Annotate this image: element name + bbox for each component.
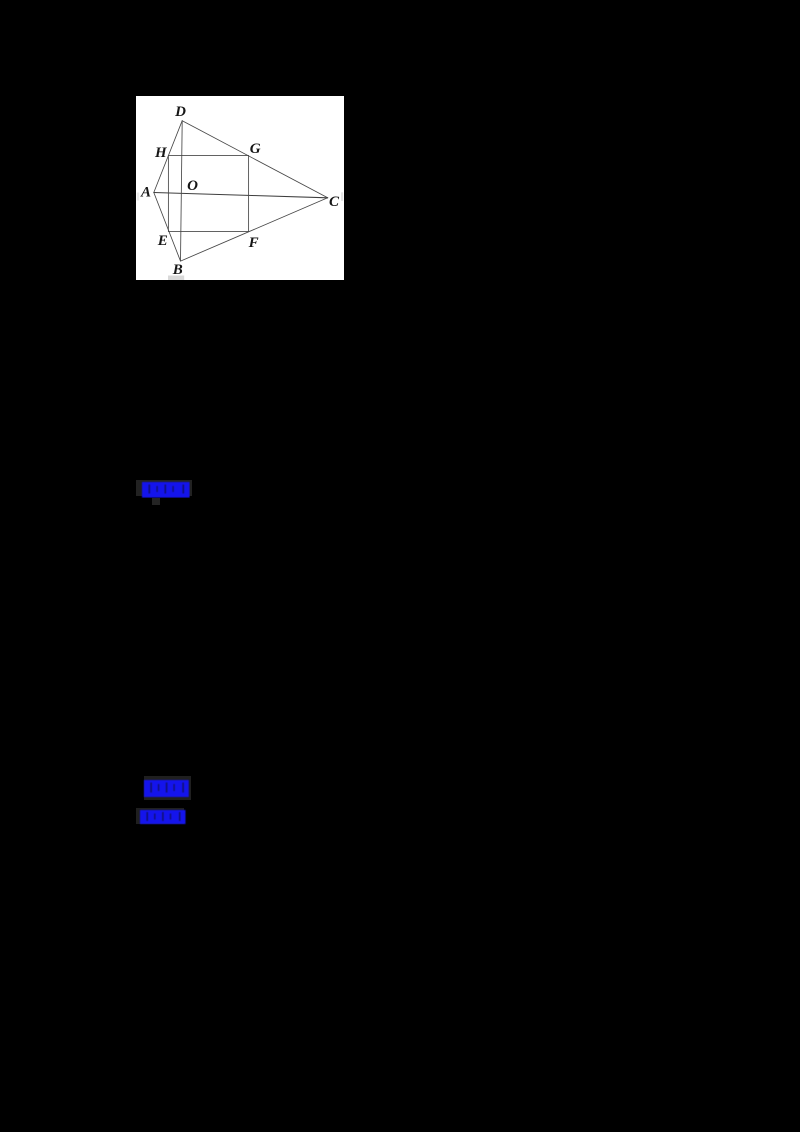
descender blob under block1 <box>152 498 160 505</box>
gray smudge under B <box>168 275 184 280</box>
side DC <box>182 120 327 197</box>
diagonal AC <box>154 192 328 197</box>
rectangle HGFE <box>168 155 248 231</box>
svg-text:C: C <box>329 194 340 210</box>
faint streak right edge near C <box>341 192 343 201</box>
svg-text:F: F <box>247 235 258 251</box>
svg-text:D: D <box>174 103 186 119</box>
svg-text:A: A <box>140 184 151 200</box>
svg-text:G: G <box>250 141 261 157</box>
blue block 1 <box>136 480 191 496</box>
side CB <box>180 197 327 260</box>
svg-text:H: H <box>154 145 168 161</box>
svg-text:E: E <box>156 232 167 248</box>
side AD <box>154 120 182 192</box>
side BA <box>154 192 181 261</box>
diagonal DB <box>180 120 182 260</box>
blue block 2 <box>144 776 192 800</box>
faint streak left edge near A <box>136 192 138 200</box>
white figure panel <box>136 96 344 281</box>
blue block 3 <box>136 808 184 824</box>
geometry diagram svg <box>136 96 344 281</box>
svg-text:O: O <box>187 178 198 194</box>
